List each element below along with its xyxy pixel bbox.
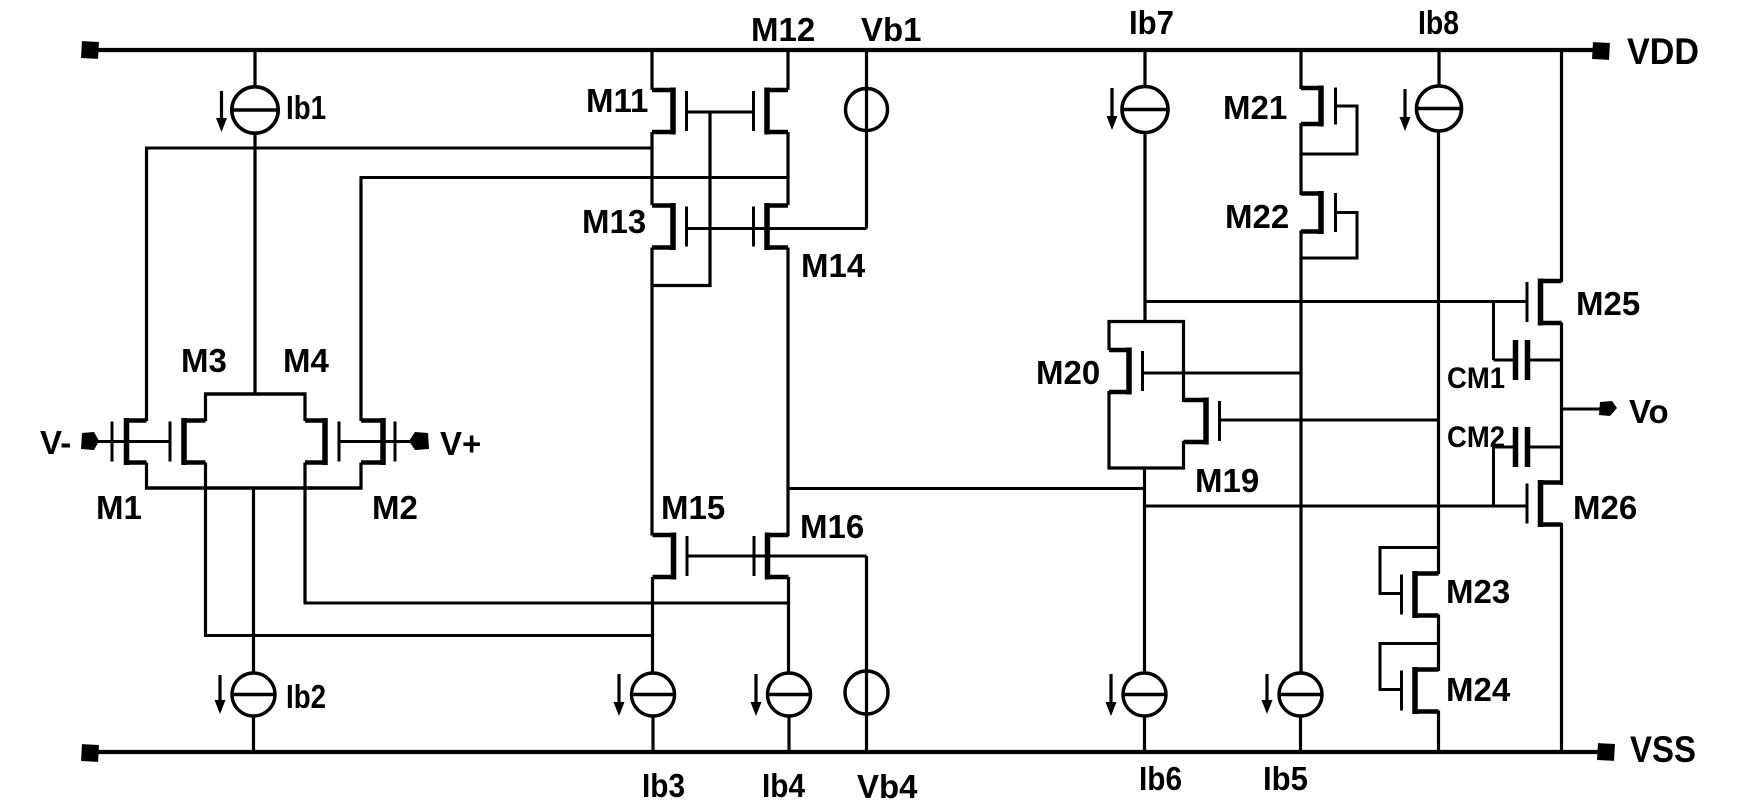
label Ib8 bbox=[1418, 4, 1459, 41]
current source Ib8 bbox=[1417, 86, 1462, 131]
wire node M1-drain to M11/M13 bbox=[145, 147, 652, 150]
label Vo bbox=[1629, 393, 1669, 430]
transistor M25 bbox=[1527, 279, 1562, 326]
wire M4 source up bbox=[303, 394, 306, 421]
label M2 bbox=[372, 489, 418, 526]
voltage source Vb1 bbox=[846, 89, 888, 131]
wire M1/M2 tail rail bbox=[145, 486, 363, 490]
svg-text:V+: V+ bbox=[440, 425, 481, 462]
svg-text:M23: M23 bbox=[1446, 573, 1510, 610]
wire M20 gate bbox=[1143, 372, 1302, 375]
transistor M22 bbox=[1301, 191, 1336, 234]
wire M23 drain to M24 source bbox=[1437, 615, 1440, 672]
wire node M2-drain to M12/M14 bbox=[360, 176, 789, 179]
transistor M26 bbox=[1527, 480, 1562, 527]
arrow Ib4 bbox=[751, 674, 762, 716]
transistor M12 bbox=[754, 88, 789, 135]
wire M26 source to VSS bbox=[1560, 523, 1563, 752]
wire VDD to M11 source bbox=[650, 50, 653, 90]
svg-text:M26: M26 bbox=[1573, 489, 1637, 526]
transistor M3 bbox=[170, 418, 206, 465]
wire M14 drain down bbox=[786, 248, 789, 537]
transistor M16 bbox=[754, 533, 789, 580]
wire M4 drain to M16 source bbox=[304, 602, 789, 605]
wire M16 source down bbox=[787, 577, 790, 673]
svg-text:M20: M20 bbox=[1036, 354, 1100, 391]
wire VDD to Ib7 bbox=[1143, 50, 1146, 88]
wire M21 drain to M22 source bbox=[1299, 123, 1302, 195]
voltage source Vb4 bbox=[845, 671, 888, 714]
svg-text:M4: M4 bbox=[283, 342, 329, 379]
transistor M11 bbox=[652, 88, 687, 135]
input terminal V+ bbox=[400, 432, 429, 450]
label V- bbox=[40, 424, 71, 461]
label Ib6 bbox=[1139, 760, 1182, 797]
wire M3 drain down bbox=[204, 463, 207, 636]
current source Ib3 bbox=[632, 673, 675, 716]
svg-text:M24: M24 bbox=[1446, 671, 1511, 708]
current source Ib4 bbox=[768, 673, 811, 716]
arrow Ib2 bbox=[215, 675, 226, 714]
label M4 bbox=[283, 342, 329, 379]
wire Ib4 to VSS bbox=[787, 716, 790, 752]
arrow Ib6 bbox=[1106, 674, 1117, 716]
wire VDD to M25 source bbox=[1560, 50, 1563, 282]
svg-text:M22: M22 bbox=[1225, 198, 1289, 235]
label Ib3 bbox=[642, 767, 685, 804]
svg-text:M3: M3 bbox=[181, 342, 227, 379]
wire Vb4 drop bbox=[865, 556, 868, 752]
capacitor CM2 bbox=[1494, 427, 1562, 506]
wire M3 source up bbox=[204, 394, 207, 421]
arrow Ib1 bbox=[216, 91, 227, 132]
svg-text:M1: M1 bbox=[96, 489, 142, 526]
wire Ib5 to VSS bbox=[1299, 716, 1302, 752]
svg-text:Ib3: Ib3 bbox=[642, 767, 685, 804]
svg-text:Vb1: Vb1 bbox=[861, 11, 922, 48]
label Ib1 bbox=[286, 89, 326, 126]
current source Ib2 bbox=[232, 673, 275, 716]
label V+ bbox=[440, 425, 481, 462]
svg-text:M25: M25 bbox=[1576, 285, 1640, 322]
label CM2 bbox=[1447, 421, 1505, 454]
label M25 bbox=[1576, 285, 1640, 322]
svg-text:VDD: VDD bbox=[1627, 31, 1699, 72]
svg-text:M13: M13 bbox=[582, 203, 646, 240]
wire M25 drain to output bbox=[1560, 323, 1563, 486]
label M20 bbox=[1036, 354, 1100, 391]
wire V- to gates of M1 M3 bbox=[97, 440, 170, 443]
label M12 bbox=[751, 11, 815, 48]
wire gate M13-M14 to Vb1 bbox=[687, 227, 867, 230]
transistor M15 bbox=[653, 533, 688, 580]
wire M2 source down bbox=[359, 463, 362, 490]
wire M3/M4 source bar bbox=[204, 392, 307, 396]
wire M24 drain to VSS bbox=[1437, 711, 1440, 753]
current source Ib1 bbox=[232, 87, 278, 133]
current source Ib5 bbox=[1279, 673, 1322, 716]
svg-text:M19: M19 bbox=[1195, 462, 1259, 499]
svg-text:CM1: CM1 bbox=[1447, 362, 1505, 395]
power rail VSS bbox=[81, 743, 1615, 762]
label Ib7 bbox=[1129, 4, 1174, 41]
label M15 bbox=[661, 489, 725, 526]
wire Ib8 down to M23 bbox=[1437, 131, 1440, 575]
transistor M13 bbox=[652, 203, 687, 250]
label Vb1 bbox=[861, 11, 922, 48]
wire tail to Ib2 bbox=[252, 488, 255, 673]
svg-text:VSS: VSS bbox=[1630, 729, 1696, 770]
wire M2 drain up bbox=[359, 178, 362, 422]
svg-text:Vo: Vo bbox=[1629, 393, 1669, 430]
label M1 bbox=[96, 489, 142, 526]
svg-text:M14: M14 bbox=[801, 247, 866, 284]
wire Ib1 to M3/M4 sources bbox=[253, 132, 256, 394]
wire node to M26 gate bbox=[1145, 505, 1528, 508]
label M16 bbox=[800, 508, 864, 545]
transistor M1 bbox=[112, 418, 147, 465]
wire VDD to M12 source bbox=[786, 50, 789, 90]
svg-text:CM2: CM2 bbox=[1447, 421, 1505, 454]
arrow Ib3 bbox=[614, 674, 625, 716]
svg-text:M12: M12 bbox=[751, 11, 815, 48]
label Vb4 bbox=[857, 768, 918, 805]
wire M23 diode loop bbox=[1380, 548, 1439, 594]
wire first stage output bbox=[788, 487, 1146, 490]
wire M12 drain to M14 source bbox=[786, 132, 789, 205]
wire M13 drain down bbox=[650, 248, 653, 536]
label M21 bbox=[1223, 89, 1287, 126]
wire drain box down to Ib6 bbox=[1143, 468, 1146, 673]
wire gate M15-M16 to Vb4 bbox=[687, 555, 867, 558]
label Ib5 bbox=[1263, 760, 1308, 797]
wire M24 diode loop bbox=[1380, 644, 1439, 690]
wire V+ to gates of M2 M4 bbox=[339, 440, 413, 443]
wire M3 drain to M15 source bbox=[204, 634, 653, 637]
wire gate M11-M12 bbox=[687, 111, 754, 114]
label M14 bbox=[801, 247, 866, 284]
transistor M23 bbox=[1402, 571, 1439, 618]
transistor M2 bbox=[361, 418, 395, 465]
wire M21 diode loop bbox=[1301, 106, 1357, 154]
transistor M20 bbox=[1109, 348, 1143, 395]
label M23 bbox=[1446, 573, 1510, 610]
svg-text:M16: M16 bbox=[800, 508, 864, 545]
transistor M14 bbox=[754, 203, 789, 250]
wire Ib6 to VSS bbox=[1143, 716, 1146, 752]
label M11 bbox=[586, 82, 648, 119]
svg-text:Ib5: Ib5 bbox=[1263, 760, 1308, 797]
svg-text:Ib7: Ib7 bbox=[1129, 4, 1174, 41]
svg-text:M15: M15 bbox=[661, 489, 725, 526]
label M13 bbox=[582, 203, 646, 240]
label Ib2 bbox=[286, 678, 326, 715]
svg-text:Vb4: Vb4 bbox=[857, 768, 918, 805]
svg-text:M11: M11 bbox=[586, 82, 648, 119]
label Ib4 bbox=[762, 767, 806, 804]
arrow Ib7 bbox=[1107, 88, 1118, 130]
wire M4 drain down bbox=[303, 463, 306, 604]
wire VDD to M21 source bbox=[1299, 50, 1302, 89]
output terminal Vo bbox=[1562, 401, 1618, 416]
net label VDD bbox=[1627, 31, 1699, 72]
label M3 bbox=[181, 342, 227, 379]
current source Ib7 bbox=[1122, 87, 1168, 133]
arrow Ib8 bbox=[1400, 89, 1411, 131]
transistor M24 bbox=[1402, 667, 1439, 714]
wire node Ib7 to M25 gate bbox=[1145, 300, 1527, 303]
wire VDD to Ib1 bbox=[253, 50, 256, 88]
wire M19 gate to Ib8 bbox=[1220, 419, 1439, 422]
svg-text:M2: M2 bbox=[372, 489, 418, 526]
transistor M19 bbox=[1184, 398, 1220, 445]
wire M20 source box bbox=[1109, 322, 1184, 403]
wire M1 drain up bbox=[145, 148, 148, 421]
wire M22 drain down to Ib5 bbox=[1299, 231, 1302, 674]
wire M11 drain to M13 source bbox=[650, 132, 653, 205]
svg-text:V-: V- bbox=[40, 424, 71, 461]
wire M13 drain loop bbox=[651, 112, 711, 286]
wire M22 diode loop bbox=[1301, 213, 1357, 259]
transistor M4 bbox=[305, 418, 339, 465]
wire Ib2 to VSS bbox=[252, 716, 255, 752]
wire Vb1 from VDD bbox=[865, 50, 868, 229]
current source Ib6 bbox=[1123, 673, 1166, 716]
svg-text:M21: M21 bbox=[1223, 89, 1287, 126]
svg-text:Ib4: Ib4 bbox=[762, 767, 806, 804]
wire M15 source down bbox=[651, 577, 654, 673]
label M26 bbox=[1573, 489, 1637, 526]
label M22 bbox=[1225, 198, 1289, 235]
label M19 bbox=[1195, 462, 1259, 499]
svg-text:Ib6: Ib6 bbox=[1139, 760, 1182, 797]
power rail VDD bbox=[81, 41, 1610, 60]
arrow Ib5 bbox=[1262, 674, 1273, 714]
wire M1 source down bbox=[145, 463, 148, 490]
svg-text:Ib1: Ib1 bbox=[286, 89, 326, 126]
capacitor CM1 bbox=[1494, 302, 1562, 381]
wire VDD to Ib8 bbox=[1437, 50, 1440, 87]
transistor M21 bbox=[1301, 86, 1336, 127]
wire Ib7 down to M20 source bbox=[1143, 132, 1146, 322]
label M24 bbox=[1446, 671, 1511, 708]
svg-text:Ib2: Ib2 bbox=[286, 678, 326, 715]
svg-text:Ib8: Ib8 bbox=[1418, 4, 1459, 41]
net label VSS bbox=[1630, 729, 1696, 770]
wire M19/M20 drain box bbox=[1109, 391, 1184, 468]
label CM1 bbox=[1447, 362, 1505, 395]
wire Ib3 to VSS bbox=[651, 716, 654, 752]
input terminal V- bbox=[81, 432, 112, 450]
